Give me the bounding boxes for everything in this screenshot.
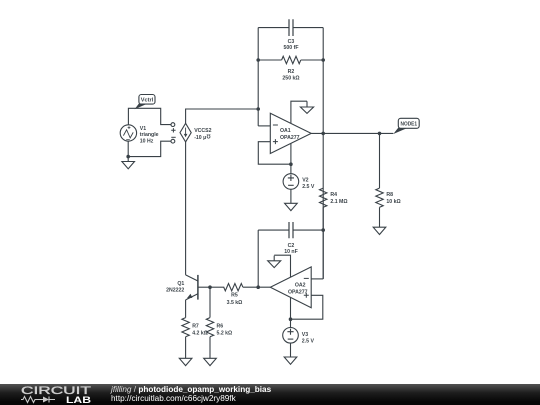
svg-text:4.2 kΩ: 4.2 kΩ: [192, 330, 208, 336]
label R7 value: [192, 323, 208, 336]
svg-text:V2: V2: [302, 178, 308, 184]
svg-text:10 Hz: 10 Hz: [140, 138, 154, 144]
ground R6: [204, 358, 217, 365]
wire R5 left: [210, 286, 224, 288]
wire R6 top: [209, 287, 211, 317]
ground R7: [179, 358, 192, 365]
node flag Vctrl: [135, 95, 155, 110]
svg-text:Q1: Q1: [177, 281, 184, 287]
svg-text:Ω: Ω: [206, 133, 210, 139]
wire C2 left: [258, 229, 289, 231]
svg-text:OPA277: OPA277: [288, 289, 308, 295]
wire R2 left: [258, 59, 281, 61]
svg-text:LAB: LAB: [66, 395, 91, 405]
wire C3 right: [293, 27, 323, 29]
resistor R8: [376, 188, 383, 207]
node junction R8 top: [378, 132, 382, 136]
svg-text:R4: R4: [330, 192, 337, 198]
voltage source V3: [283, 319, 299, 357]
wire R7 bottom: [185, 337, 187, 359]
node junction output loop: [321, 132, 325, 136]
footer bar: [0, 384, 540, 405]
svg-text:5.2 kΩ: 5.2 kΩ: [217, 330, 233, 336]
svg-text:500 fF: 500 fF: [284, 45, 299, 51]
label R6 value: [217, 323, 233, 336]
terminal - of VCCS2: [171, 139, 175, 143]
svg-text:2.5 V: 2.5 V: [302, 184, 315, 190]
svg-text:OA1: OA1: [280, 128, 291, 134]
node junction V3 top: [289, 317, 293, 321]
svg-text:250 kΩ: 250 kΩ: [282, 75, 299, 81]
svg-text:R7: R7: [192, 323, 199, 329]
wire R4 bottom: [322, 207, 324, 279]
ground OA1 power: [300, 101, 313, 113]
resistor R2: [282, 56, 301, 63]
wire R6 bottom: [209, 337, 211, 359]
capacitor C3: [289, 19, 293, 36]
label Q1: [166, 281, 184, 294]
svg-text:R6: R6: [217, 323, 224, 329]
plus sign control: [171, 128, 175, 132]
minus sign control: [171, 136, 175, 138]
node junction V1 bottom: [126, 155, 130, 159]
footer title text: [111, 385, 271, 404]
svg-text:2N2222: 2N2222: [166, 288, 184, 294]
svg-text:R2: R2: [288, 69, 295, 75]
ground R8: [373, 227, 386, 234]
svg-text:V3: V3: [302, 332, 308, 338]
wire feedback loop left vertical: [257, 28, 259, 126]
svg-text:OA2: OA2: [295, 282, 306, 288]
wire V1 top to Vctrl corner and VCCS2 control + terminal: [128, 108, 170, 125]
wire VCCS2 bottom to Q1 collector: [185, 142, 187, 275]
terminal + of VCCS2: [171, 123, 175, 127]
wire R2 right: [301, 59, 323, 61]
voltage source V1: [120, 125, 136, 141]
label R5 value: [227, 293, 243, 306]
wire R8 bottom: [379, 207, 381, 227]
label R8 value: [386, 192, 400, 205]
transistor Q1: [186, 275, 210, 300]
wire OA2 inverting input: [311, 278, 323, 280]
svg-text:OPA277: OPA277: [280, 135, 300, 141]
node junction R2 left: [256, 58, 260, 62]
node junction feedback left at VCCS2 wire: [256, 107, 260, 111]
node flag NODE1: [393, 118, 419, 134]
resistor R4: [320, 188, 327, 207]
wire C2 right: [293, 229, 323, 231]
wire C3 left: [258, 27, 289, 29]
label V3 value: [302, 332, 315, 345]
node junction R5 right / C2: [256, 285, 260, 289]
label R4 value: [330, 192, 347, 205]
node junction Q1 base / R6: [208, 285, 212, 289]
op-amp OA2 (mirrored): [270, 267, 311, 308]
wire OA2 V- power pin: [290, 297, 292, 319]
wire to OA1 inverting input: [258, 125, 270, 127]
svg-text:10 nF: 10 nF: [284, 249, 298, 255]
ground V2: [285, 203, 298, 210]
wire OA1 V- power pin: [290, 143, 292, 164]
wire OA2 output to R5: [243, 286, 270, 288]
wire C2 left vertical: [257, 230, 259, 287]
label V1 value: [140, 126, 159, 145]
svg-text:2.5 V: 2.5 V: [302, 338, 315, 344]
wire Q1 emitter to R7: [185, 300, 187, 318]
wire VCCS2 top to OA1 inverting input junction: [186, 109, 259, 123]
svg-text:Vctrl: Vctrl: [141, 98, 154, 104]
wire OA2 V+ power pin to ground: [274, 255, 290, 277]
voltage source V2: [283, 164, 299, 203]
svg-text:3.5 kΩ: 3.5 kΩ: [227, 300, 243, 306]
node junction R2 right: [321, 58, 325, 62]
wire OA2 noninverting input: [291, 295, 323, 319]
label V2 value: [302, 178, 315, 191]
svg-text:R8: R8: [386, 192, 393, 198]
node junction V2 top: [289, 162, 293, 166]
label C3 value: [284, 39, 299, 51]
svg-text:NODE1: NODE1: [401, 122, 418, 128]
svg-text:-10 µ: -10 µ: [194, 135, 206, 141]
ground V3: [284, 357, 297, 364]
svg-text:10 kΩ: 10 kΩ: [386, 199, 400, 205]
label OA1: [280, 128, 300, 141]
label OA2: [288, 282, 308, 295]
svg-text:2.1 MΩ: 2.1 MΩ: [330, 199, 347, 205]
ground V1: [122, 162, 135, 169]
svg-text:triangle: triangle: [140, 132, 159, 138]
resistor R5: [224, 284, 243, 291]
label R2 value: [282, 69, 299, 82]
svg-text:V1: V1: [140, 126, 146, 132]
op-amp OA1: [270, 113, 311, 153]
wire V1 bottom stub: [127, 141, 129, 162]
wire R8 top: [379, 133, 381, 188]
resistor R6: [206, 318, 213, 337]
wire VCCS2 control - terminal to V1 bottom: [128, 141, 171, 156]
node junction C2 right: [321, 228, 325, 232]
CircuitLab logo: [16, 384, 116, 405]
ground OA2 power: [268, 256, 281, 268]
wire OA1 noninverting input: [258, 142, 291, 165]
resistor R7: [182, 318, 189, 337]
wire OA1 V+ power pin to ground: [291, 101, 307, 123]
label VCCS2 value: [194, 128, 211, 141]
wire OA1 output: [311, 132, 393, 134]
label C2 value: [284, 243, 298, 255]
wire feedback loop right vertical: [322, 28, 324, 279]
capacitor C2: [289, 222, 293, 238]
current source VCCS2: [180, 123, 191, 142]
svg-text:R5: R5: [231, 293, 238, 299]
